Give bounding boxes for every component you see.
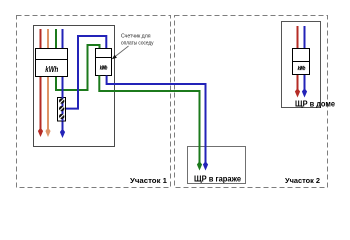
meter kWh (neighbour) bbox=[96, 49, 112, 76]
wire green to neighbour meter bbox=[56, 45, 100, 90]
box ЩР в гараже bbox=[188, 147, 246, 184]
wire blue through terminal block bbox=[62, 97, 64, 121]
svg-text:kWh: kWh bbox=[45, 65, 58, 74]
enclosure (metering cabinet) bbox=[34, 26, 115, 147]
arrow green garage bbox=[197, 161, 202, 171]
wire blue below terminal block bbox=[62, 120, 64, 131]
wire L3 green incoming bbox=[55, 29, 57, 49]
wire green neighbour meter to garage bbox=[99, 76, 199, 164]
wire blue to terminal block bbox=[62, 77, 64, 99]
svg-text:Участок 2: Участок 2 bbox=[285, 176, 320, 185]
meter kWh (house) bbox=[293, 49, 310, 75]
wire L2 orange incoming bbox=[47, 29, 49, 49]
section boundary Участок 1 bbox=[17, 16, 171, 188]
wire red house outgoing bbox=[297, 75, 299, 91]
wire N blue incoming bbox=[62, 29, 64, 49]
terminal 3 bbox=[59, 114, 64, 119]
wire red house incoming bbox=[297, 26, 299, 49]
wire blue branch to neighbour meter bbox=[64, 36, 106, 109]
svg-text:ЩР в доме: ЩР в доме bbox=[295, 100, 336, 109]
arrow blue bbox=[60, 129, 65, 139]
terminal block bbox=[58, 98, 66, 122]
wire blue house outgoing bbox=[304, 75, 306, 91]
section boundary Участок 2 bbox=[175, 16, 328, 188]
annotation arrowhead bbox=[112, 55, 117, 60]
arrow red bbox=[38, 128, 43, 138]
arrow orange bbox=[45, 128, 50, 138]
svg-text:kWh: kWh bbox=[298, 66, 306, 72]
wire L1 red incoming bbox=[40, 29, 42, 49]
wire L1 red outgoing bbox=[40, 77, 42, 131]
wire L2 orange outgoing bbox=[47, 77, 49, 131]
annotation leader line bbox=[115, 46, 129, 57]
wire blue house incoming bbox=[304, 26, 306, 49]
arrow blue house bbox=[302, 88, 307, 98]
box ЩР в доме bbox=[282, 22, 321, 108]
arrow red house bbox=[295, 88, 300, 98]
svg-text:kWh: kWh bbox=[100, 66, 108, 72]
svg-text:оплаты соседу: оплаты соседу bbox=[121, 41, 154, 47]
terminal 2 bbox=[59, 106, 64, 111]
svg-text:ЩР в гараже: ЩР в гараже bbox=[194, 175, 242, 184]
wire blue neighbour meter to garage bbox=[107, 76, 206, 164]
meter kWh (main) bbox=[36, 49, 68, 77]
terminal 1 bbox=[59, 98, 64, 103]
svg-text:Участок 1: Участок 1 bbox=[130, 176, 168, 185]
arrow blue garage bbox=[203, 161, 208, 171]
svg-text:Счетчик для: Счетчик для bbox=[121, 34, 151, 40]
